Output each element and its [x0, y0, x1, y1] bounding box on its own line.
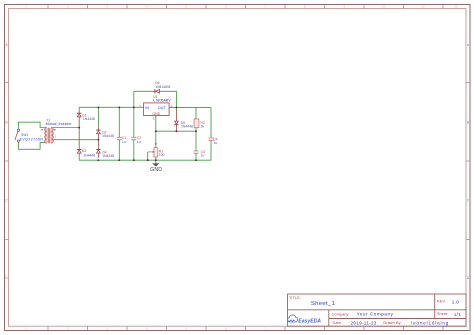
- svg-text:100: 100: [159, 153, 165, 157]
- svg-text:2019-11-23: 2019-11-23: [351, 320, 377, 325]
- svg-text:1u: 1u: [122, 140, 126, 144]
- svg-text:1.0: 1.0: [452, 300, 459, 305]
- svg-text:GND: GND: [152, 112, 160, 116]
- svg-text:1N4448: 1N4448: [102, 134, 114, 138]
- svg-text:Company:: Company:: [332, 312, 350, 316]
- svg-text:L7805ABV: L7805ABV: [153, 98, 171, 102]
- svg-text:1N4448: 1N4448: [181, 124, 193, 128]
- svg-text:10: 10: [382, 5, 386, 9]
- svg-text:12: 12: [454, 5, 458, 9]
- svg-text:1u: 1u: [201, 154, 205, 158]
- svg-text:IN: IN: [145, 106, 149, 110]
- svg-text:SW1: SW1: [21, 133, 28, 137]
- svg-text:1/1: 1/1: [454, 312, 461, 317]
- svg-text:Drawn By:: Drawn By:: [383, 321, 401, 325]
- svg-text:Sheet:: Sheet:: [437, 312, 449, 316]
- svg-text:Date:: Date:: [333, 321, 343, 325]
- svg-text:Your Company: Your Company: [357, 311, 394, 316]
- svg-text:1u: 1u: [137, 140, 141, 144]
- svg-text:TITLE:: TITLE:: [289, 296, 301, 300]
- svg-text:Mutual_Inductor: Mutual_Inductor: [46, 122, 73, 126]
- svg-text:1N4148W: 1N4148W: [155, 85, 171, 89]
- svg-text:REV:: REV:: [437, 300, 446, 304]
- svg-text:EVQ22705R: EVQ22705R: [20, 138, 44, 142]
- svg-text:EasyEDA: EasyEDA: [298, 318, 321, 324]
- svg-text:Sheet_1: Sheet_1: [311, 301, 335, 307]
- svg-text:11: 11: [422, 5, 425, 9]
- svg-text:1k: 1k: [201, 125, 205, 129]
- svg-text:GND: GND: [150, 167, 162, 173]
- svg-text:OUT: OUT: [158, 106, 167, 110]
- svg-text:1N4448: 1N4448: [83, 153, 95, 157]
- svg-text:1N4448: 1N4448: [83, 117, 95, 121]
- svg-text:1N4448: 1N4448: [102, 154, 114, 158]
- svg-text:leonel16laing: leonel16laing: [411, 320, 449, 325]
- svg-text:1u: 1u: [213, 141, 217, 145]
